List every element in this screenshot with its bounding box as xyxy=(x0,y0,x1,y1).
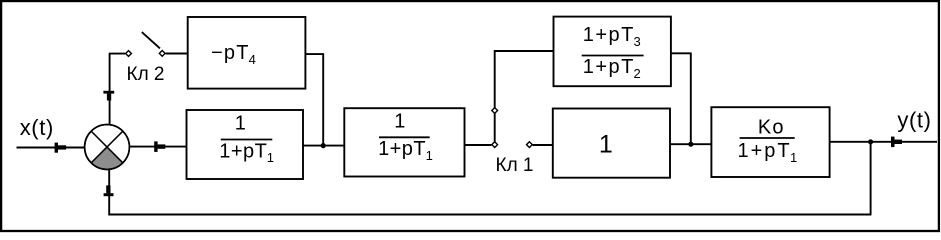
svg-text:1: 1 xyxy=(394,111,406,133)
svg-text:x(t): x(t) xyxy=(20,115,54,140)
svg-text:1+pT1: 1+pT1 xyxy=(738,140,800,165)
svg-text:1+pT3: 1+pT3 xyxy=(583,24,642,49)
svg-text:1+pT1: 1+pT1 xyxy=(378,138,433,163)
svg-text:1+pT2: 1+pT2 xyxy=(583,56,642,81)
svg-text:1: 1 xyxy=(599,130,613,158)
svg-text:Ko: Ko xyxy=(758,117,785,139)
svg-text:Кл 2: Кл 2 xyxy=(127,64,165,85)
svg-text:1: 1 xyxy=(235,113,247,135)
svg-text:1+pT1: 1+pT1 xyxy=(219,140,274,165)
svg-text:Кл 1: Кл 1 xyxy=(496,155,534,176)
svg-text:y(t): y(t) xyxy=(897,108,931,133)
